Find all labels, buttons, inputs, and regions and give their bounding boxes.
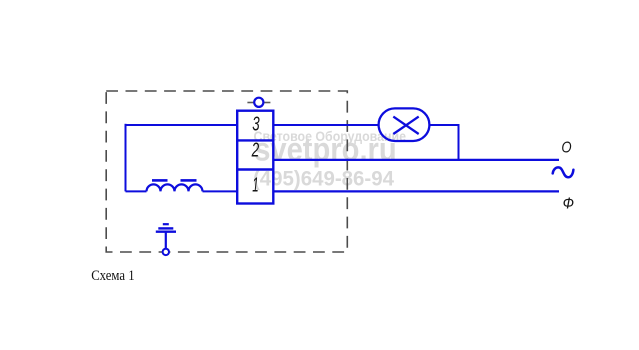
terminal block divider 2/1 <box>236 168 275 170</box>
svg-text:3: 3 <box>252 114 259 136</box>
ground terminal circle <box>163 249 169 255</box>
lamp cross stroke 1 <box>393 117 418 134</box>
wire: terminal 1 to node Ф <box>273 190 559 192</box>
screw terminal dash left <box>247 102 253 104</box>
svg-text:svetpro.ru: svetpro.ru <box>254 130 397 167</box>
ground bar middle <box>158 227 173 229</box>
ground bar long <box>156 230 176 232</box>
choke (ballast) coil <box>147 184 203 191</box>
lamp EL <box>379 108 430 141</box>
screw terminal dash right <box>264 102 270 104</box>
ground stem <box>165 232 167 249</box>
wire: terminal 2 to node O <box>273 159 559 161</box>
enclosure dashed box (fixture housing) <box>106 91 347 252</box>
wire: terminal 3 right to lamp <box>273 124 379 126</box>
terminal block outer <box>237 111 273 204</box>
ground bar short <box>163 223 169 225</box>
screw terminal circle <box>254 98 263 107</box>
wire: terminal 3 left to vertical riser <box>126 124 238 126</box>
lamp cross stroke 2 <box>393 117 418 134</box>
svg-text:Схема 1: Схема 1 <box>91 268 134 284</box>
AC tilde symbol <box>553 167 574 177</box>
svg-text:1: 1 <box>252 174 258 196</box>
svg-text:Ф: Ф <box>563 195 574 212</box>
wire: left vertical riser <box>125 124 127 192</box>
wire: lamp right stub <box>430 124 459 126</box>
svg-text:2: 2 <box>251 140 259 162</box>
choke core bar right <box>181 179 197 182</box>
terminal block divider 3/2 <box>236 139 275 141</box>
choke core bar left <box>152 179 168 182</box>
wire: choke to terminal 1 <box>203 190 238 192</box>
wire: riser to choke <box>126 190 147 192</box>
wire: lamp drop to O line <box>458 124 460 160</box>
svg-text:O: O <box>561 139 571 156</box>
